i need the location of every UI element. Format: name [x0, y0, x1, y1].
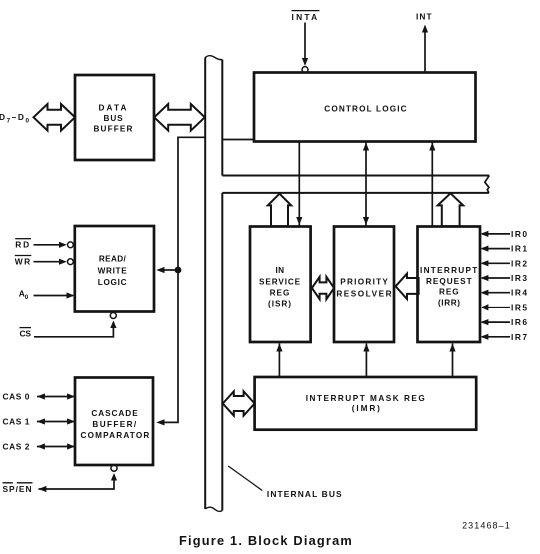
wire: IMR to priority resolver — [365, 344, 367, 378]
wire: IMR to IRR — [452, 344, 454, 378]
svg-text:READ/: READ/ — [99, 255, 127, 264]
cascade buffer/comparator block — [75, 378, 153, 466]
svg-text:INTERNAL BUS: INTERNAL BUS — [267, 489, 343, 499]
svg-text:SERVICE: SERVICE — [259, 277, 301, 286]
wire: CAS 0 (bidirectional) — [37, 396, 75, 398]
wire: bus to control logic — [222, 139, 254, 141]
svg-text:A0: A0 — [19, 288, 29, 301]
wire: control logic to ISR — [298, 142, 300, 227]
svg-text:IR1: IR1 — [511, 244, 529, 254]
wire: CAS 1 (bidirectional) — [37, 421, 75, 423]
svg-text:IR2: IR2 — [511, 258, 529, 268]
wire IR5 input — [482, 304, 511, 310]
bus arrow: data bus buffer to internal bus — [154, 104, 205, 131]
wire: CS input — [34, 322, 113, 337]
svg-text:BUFFER: BUFFER — [94, 125, 134, 134]
svg-text:IR7: IR7 — [511, 332, 529, 342]
svg-text:IN: IN — [276, 266, 285, 275]
bus arrow: ISR to priority resolver (bidirectional) — [312, 277, 334, 299]
svg-text:BUS: BUS — [104, 114, 124, 123]
svg-text:INT: INT — [416, 11, 433, 21]
svg-text:CAS 1: CAS 1 — [3, 417, 31, 427]
wire: RD input — [34, 244, 65, 246]
bus arrow: IRR to priority resolver — [396, 274, 419, 299]
svg-text:(IMR): (IMR) — [352, 404, 382, 413]
svg-text:CS: CS — [20, 329, 32, 339]
wire IR1 input — [481, 246, 511, 252]
svg-text:(ISR): (ISR) — [268, 299, 292, 308]
svg-text:INTERRUPT MASK REG: INTERRUPT MASK REG — [306, 394, 426, 403]
wire: SP/EN (bidirectional) — [39, 476, 115, 489]
wire: INT out of control logic — [424, 28, 426, 73]
svg-text:CASCADE: CASCADE — [91, 409, 138, 418]
svg-text:REQUEST: REQUEST — [426, 277, 473, 286]
svg-text:D7–D0: D7–D0 — [0, 112, 30, 125]
wire: WR input — [34, 261, 65, 263]
svg-text:CAS 2: CAS 2 — [3, 442, 31, 452]
wire arrowhead into cascade buffer — [156, 419, 164, 425]
svg-text:INTERRUPT: INTERRUPT — [420, 266, 479, 275]
svg-text:231468–1: 231468–1 — [462, 521, 511, 531]
bus arrow: ISR up to internal bus — [268, 194, 291, 227]
text: block labels — [81, 104, 479, 440]
wire IR6 input — [481, 319, 511, 325]
bus arrow: IRR up to internal bus — [438, 193, 464, 226]
internal bus (vertical) — [205, 56, 222, 512]
control logic block — [254, 73, 476, 142]
svg-text:DATA: DATA — [99, 104, 129, 113]
svg-text:SP/EN: SP/EN — [3, 484, 33, 494]
svg-text:(IRR): (IRR) — [438, 298, 461, 307]
wire arrowhead into read/write logic — [156, 267, 164, 273]
wire IR3 input — [481, 275, 511, 281]
svg-text:IR4: IR4 — [511, 288, 529, 298]
svg-text:PRIORITY: PRIORITY — [340, 278, 389, 287]
svg-text:LOGIC: LOGIC — [98, 278, 128, 287]
svg-text:WRITE: WRITE — [98, 266, 128, 275]
junction dot on trunk — [175, 267, 182, 274]
priority resolver block — [334, 227, 394, 343]
wire: CAS 2 (bidirectional) — [37, 446, 75, 448]
wire: bus to rw-logic/cascade trunk — [164, 137, 206, 422]
svg-text:COMPARATOR: COMPARATOR — [81, 431, 151, 440]
svg-text:WR: WR — [15, 256, 32, 266]
svg-text:REG: REG — [439, 287, 460, 296]
wire: trunk to read/write logic — [164, 269, 179, 271]
svg-text:RD: RD — [15, 239, 31, 249]
interrupt request reg IRR block — [418, 227, 481, 343]
read/write logic block — [75, 226, 154, 312]
svg-text:IR3: IR3 — [511, 273, 529, 283]
internal bus callout line — [228, 466, 262, 491]
svg-text:CAS 0: CAS 0 — [3, 392, 31, 402]
svg-text:IR0: IR0 — [511, 229, 529, 239]
wire IR4 input — [481, 290, 511, 296]
svg-text:IR6: IR6 — [511, 317, 529, 327]
wire: A0 input — [34, 295, 74, 297]
svg-text:CONTROL LOGIC: CONTROL LOGIC — [324, 104, 408, 113]
bus arrow: D7-D0 to data bus buffer — [34, 104, 76, 131]
svg-text:INTA: INTA — [292, 12, 320, 22]
wire: IRR up to control logic — [431, 142, 433, 227]
wire: INTA into control logic — [304, 23, 306, 63]
svg-text:BUFFER/: BUFFER/ — [92, 420, 137, 429]
bus arrow: internal bus to IMR — [223, 391, 255, 415]
wire IR0 input — [481, 231, 511, 237]
svg-text:RESOLVER: RESOLVER — [336, 289, 393, 298]
wire IR7 input — [481, 334, 511, 340]
in service reg ISR block — [250, 227, 311, 343]
svg-text:Figure 1. Block Diagram: Figure 1. Block Diagram — [179, 533, 353, 548]
data bus buffer block — [75, 75, 154, 160]
internal bus horizontal branch (jagged right end) — [222, 176, 489, 193]
svg-text:IR5: IR5 — [511, 302, 529, 312]
wire: control logic to priority resolver (both arrows) — [365, 142, 367, 227]
wire: IMR to ISR — [278, 344, 280, 378]
INTA input bubble — [302, 67, 308, 73]
wire IR2 input — [481, 260, 511, 266]
svg-text:REG: REG — [270, 288, 291, 297]
interrupt mask reg IMR block — [255, 377, 477, 430]
